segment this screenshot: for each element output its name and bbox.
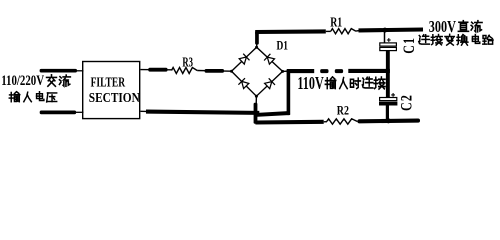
wire: 110V link solid right [348,69,390,73]
wire: 110V link solid left [287,69,314,73]
wire: bridge right node to link corner [283,70,289,72]
junction: C2 to bottom rail [386,118,391,123]
wire: jog segment bottom of V2 to V1 [255,113,290,115]
wire: filter top output to R3 [141,68,172,72]
svg-text:SECTION: SECTION [89,90,140,106]
diode bridge D1 [232,47,283,96]
wire: bottom rail (V1 to R2) [255,120,323,125]
svg-text:R3: R3 [182,54,193,70]
wire: 110V link dash 1 [320,69,328,73]
diode a (left-top) of bridge D1 [239,54,249,64]
capacitor C1 [380,31,397,51]
diode c (bottom-left) of bridge D1 [238,78,248,88]
resistor R2 [324,119,361,124]
svg-text:C2: C2 [399,94,416,111]
svg-text:110V: 110V [297,75,323,94]
resistor R1 [331,29,356,34]
wire: filter bottom output to V1 [141,111,260,113]
wire: top input stub to filter [40,69,84,73]
wire: C1 bottom to C2 top (mid node) [386,51,390,98]
wire: 110V link dash 2 [335,69,343,73]
wire: top rail (R1 to output) [356,30,423,32]
svg-text:C1: C1 [401,37,418,54]
label: connect when 110V input [297,75,385,94]
filter box: FILTER SECTION [83,62,140,119]
wire: bottom rail (R2 to end) [360,119,419,124]
svg-text:FILTER: FILTER [91,74,126,90]
wire: bottom input stub to filter [40,111,84,115]
diode b (top-right) of bridge D1 [264,54,274,64]
svg-text:110/220V: 110/220V [1,73,44,89]
wire: top rail (bridge to R1) [255,29,331,34]
junction: C1 to top rail [382,28,387,33]
svg-text:300V: 300V [429,18,457,36]
label: 300V DC (line 1) [429,18,482,36]
wire: bridge top lead [255,31,259,47]
label: connect to converter circuit (line 2) [419,34,493,45]
node: bridge left (AC in) [230,70,233,73]
capacitor C2 [380,93,397,120]
wire: bridge bottom lead (V1) [254,96,258,123]
wire: R3 to bridge left node [197,69,231,73]
svg-text:R2: R2 [337,104,349,117]
wire: link corner down (V2) [287,69,291,115]
label: input voltage (line 2) [9,92,56,102]
svg-text:R1: R1 [330,14,342,30]
label: 110/220V AC input voltage (line 1) [1,73,70,89]
resistor R3 [172,68,198,74]
node: bridge bottom (DC-) [255,95,258,98]
svg-text:D1: D1 [277,39,289,52]
diode d (bottom-right) of bridge D1 [265,78,275,88]
node: bridge right (AC in) [281,70,284,73]
node: bridge top (DC+) [255,46,258,49]
